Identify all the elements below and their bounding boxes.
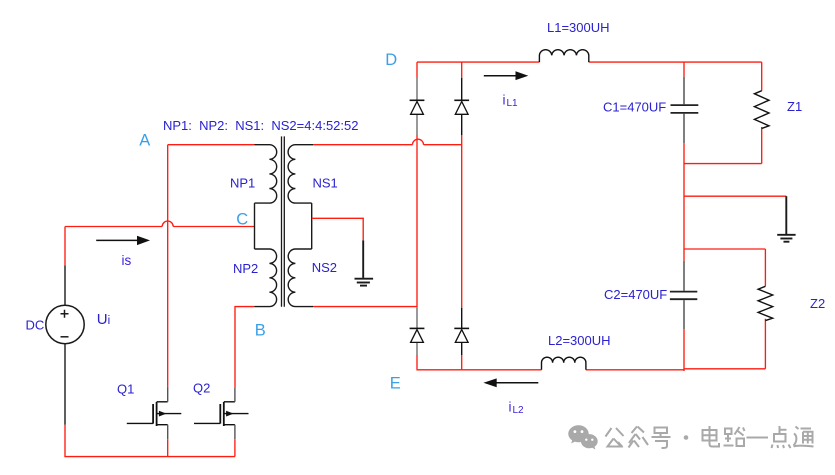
svg-text:L1=300UH: L1=300UH — [547, 20, 610, 35]
wire B — [235, 307, 254, 388]
wire top D rail — [417, 61, 762, 63]
svg-text:is: is — [122, 253, 132, 268]
transformer primary centre tap — [254, 203, 256, 249]
resistor Z1 vertical leads — [761, 62, 763, 164]
transformer winding NP2 — [254, 249, 276, 307]
wire hop over diode line — [413, 139, 424, 145]
svg-text:NP1: NP1 — [230, 175, 255, 190]
resistor Z2 — [758, 286, 773, 320]
svg-text:L2=300UH: L2=300UH — [548, 333, 611, 348]
diode branch 1 vertical red segments — [416, 62, 418, 369]
resistor Z1 — [754, 91, 769, 129]
wire A vertical — [167, 145, 169, 387]
capacitor C1 — [671, 105, 699, 113]
wire DC top vertical — [64, 227, 66, 266]
svg-text:DC: DC — [26, 318, 45, 333]
watermark wechat icon — [568, 425, 597, 449]
wire NS1 top to diodes — [313, 144, 413, 146]
diode D2 — [454, 100, 469, 114]
svg-text:NP2: NP2 — [233, 261, 258, 276]
svg-text:i: i — [503, 93, 506, 108]
wire bottom rail — [65, 425, 235, 457]
transformer winding NS1 — [288, 145, 313, 203]
arrow iL1 — [484, 75, 516, 77]
DC source V1 — [46, 305, 84, 343]
transistor Q2 drain/source pins — [234, 388, 236, 440]
diode branch 2 pin stubs — [461, 78, 463, 355]
svg-text:NS2: NS2 — [312, 260, 337, 275]
svg-text:Z1: Z1 — [787, 99, 802, 114]
transistor Q1 drain/source pins — [167, 387, 169, 440]
wire C to transformer tap — [173, 226, 254, 228]
svg-text:C2=470UF: C2=470UF — [604, 287, 667, 302]
wire NS2 bottom to diode line — [313, 306, 417, 308]
inductor L2 — [542, 357, 586, 370]
svg-text:A: A — [139, 131, 150, 149]
点 — [772, 426, 791, 448]
svg-text:B: B — [255, 321, 266, 339]
svg-text:Q1: Q1 — [117, 381, 134, 396]
众 — [629, 427, 649, 448]
diode D4 — [454, 328, 469, 342]
arrow is — [96, 239, 138, 241]
路 — [724, 427, 745, 446]
transformer winding NS2 — [288, 249, 313, 307]
号 — [652, 428, 671, 449]
电 — [703, 426, 720, 447]
svg-text:D: D — [385, 51, 397, 69]
· — [684, 435, 689, 440]
diode D3 — [410, 328, 425, 342]
inductor L1 — [539, 50, 588, 62]
svg-text:E: E — [390, 375, 401, 393]
capacitor C1 pins — [683, 77, 685, 144]
DC source pin top — [64, 265, 66, 305]
公 — [606, 428, 624, 447]
wire Q1 source to rail — [167, 439, 169, 456]
wire Q2 source to rail — [234, 439, 236, 456]
通 — [794, 427, 814, 447]
wire hop over node A line — [162, 221, 173, 226]
transformer core — [282, 136, 285, 306]
wire bottom E rail — [417, 369, 765, 370]
ground at secondary tap — [355, 240, 374, 285]
svg-text:NP1: NP2: NS1: NS2=4:4:52:5: NP1: NP2: NS1: NS2=4:4:52:52 — [163, 118, 358, 133]
diode D1 — [410, 100, 425, 114]
DC source pin bottom — [64, 344, 66, 425]
svg-text:C1=470UF: C1=470UF — [603, 99, 666, 114]
wire secondary tap to ground — [312, 218, 364, 240]
diode branch 2 vertical red segments — [461, 62, 463, 369]
wire C1 branch red — [683, 62, 685, 371]
capacitor C2 — [670, 292, 697, 300]
svg-text:C: C — [236, 211, 248, 229]
ground right — [777, 196, 795, 242]
wire mid common rail — [684, 195, 786, 197]
transformer winding NP1 — [255, 145, 277, 203]
arrow iL2 — [497, 382, 539, 384]
capacitor C2 pins — [683, 261, 685, 330]
transistor Q1 — [127, 402, 182, 426]
watermark text 公众号 · 电路一点通 (drawn strokes) — [606, 426, 814, 448]
transistor Q2 — [194, 402, 249, 426]
svg-text:Z2: Z2 — [810, 296, 825, 311]
wire loop1 bottom — [684, 163, 762, 165]
svg-text:L2: L2 — [513, 405, 525, 416]
wire A horizontal — [168, 144, 255, 146]
resistor Z2 vertical leads — [764, 249, 766, 369]
wire to second diode line — [424, 144, 462, 146]
transformer secondary centre tap — [311, 203, 313, 249]
一 — [747, 437, 769, 439]
svg-text:i: i — [509, 400, 512, 415]
svg-text:Q2: Q2 — [193, 381, 210, 396]
svg-text:NS1: NS1 — [313, 175, 338, 190]
wire loop2 top — [684, 248, 765, 250]
wire C horizontal from DC — [65, 226, 162, 228]
svg-text:L1: L1 — [507, 98, 519, 109]
diode branch 1 pin stubs — [416, 78, 418, 356]
